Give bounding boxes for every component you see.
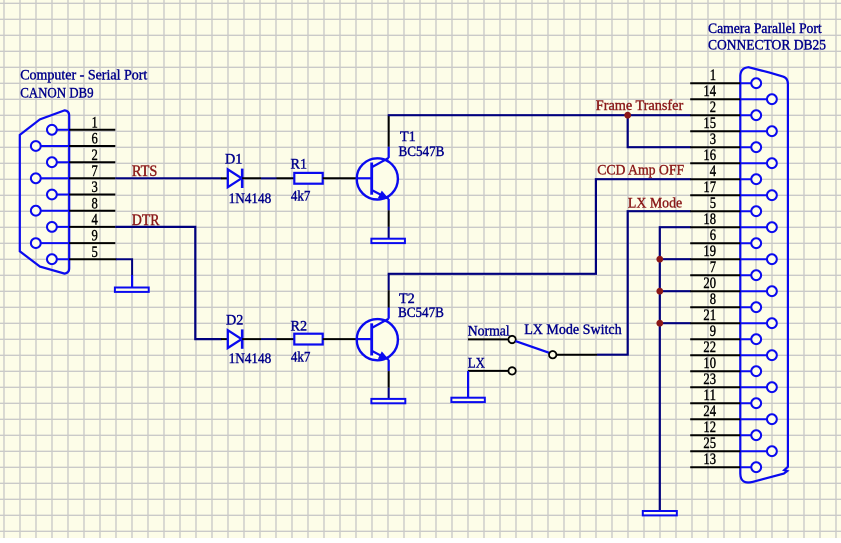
wire branch to DB25 pin 3 [628, 115, 691, 147]
transistor T1 [357, 115, 398, 227]
ground (T1 emitter) [371, 227, 405, 243]
ground (DB9 pin 5) [115, 259, 149, 292]
DB25 pin 13 [690, 451, 761, 472]
svg-text:25: 25 [703, 435, 716, 452]
resistor R2 [277, 334, 357, 345]
DB25 pin 4 [690, 163, 761, 184]
wire branch DB25 pin 20 [660, 290, 691, 292]
svg-text:17: 17 [703, 179, 716, 196]
svg-text:8: 8 [92, 195, 99, 212]
DB25 pin 15 [690, 115, 777, 136]
DB25 pin 20 [690, 275, 777, 296]
svg-text:22: 22 [703, 339, 716, 356]
svg-text:6: 6 [92, 131, 99, 148]
svg-text:DTR: DTR [132, 212, 160, 229]
svg-text:20: 20 [703, 275, 716, 292]
switch S1 "LX Mode Switch" [468, 336, 597, 375]
diode D2 [221, 329, 261, 348]
DB25 pin 16 [690, 147, 777, 168]
DB25 pin 6 [690, 227, 761, 248]
DB25 pin 5 [690, 195, 761, 216]
svg-text:Frame Transfer: Frame Transfer [596, 98, 684, 114]
wire D2 to R2 [261, 338, 277, 340]
wire LX Mode (DB25 pin 5 to switch pole) [597, 211, 691, 355]
transistor T2 [357, 274, 398, 388]
DB25 pin 19 [690, 243, 777, 264]
DB9 pin 1 [47, 114, 115, 134]
DB25 pin 10 [690, 355, 761, 376]
svg-text:1: 1 [92, 114, 98, 131]
svg-text:14: 14 [703, 83, 716, 100]
svg-text:D2: D2 [226, 312, 243, 328]
svg-text:3: 3 [710, 131, 717, 148]
svg-text:5: 5 [710, 195, 717, 212]
svg-text:11: 11 [703, 387, 716, 404]
DB9 pin 9 [31, 228, 115, 248]
svg-text:CONNECTOR DB25: CONNECTOR DB25 [708, 37, 826, 53]
svg-text:6: 6 [710, 227, 717, 244]
DB25 pin 21 [690, 307, 777, 328]
svg-text:4k7: 4k7 [291, 349, 310, 365]
DB9 connector shell [20, 110, 69, 273]
DB25 pin 11 [690, 387, 761, 408]
svg-text:D1: D1 [225, 151, 242, 167]
svg-text:LX Mode Switch: LX Mode Switch [524, 322, 622, 338]
svg-text:10: 10 [703, 355, 716, 372]
svg-text:3: 3 [92, 179, 99, 196]
DB25 pin 25 [690, 435, 777, 456]
wire Frame Transfer (T1 collector to DB25 pin 2) [388, 114, 691, 116]
junction dot (pin 19) [656, 256, 663, 263]
junction dot (Frame Transfer node) [624, 112, 631, 119]
wire CCD Amp OFF (T2 collector to DB25 pin 4) [388, 179, 691, 274]
svg-text:24: 24 [703, 403, 716, 420]
svg-text:LX Mode: LX Mode [628, 195, 682, 211]
wire RTS (DB9 pin7 to D1) [115, 177, 221, 179]
svg-text:1N4148: 1N4148 [229, 351, 272, 367]
svg-text:R2: R2 [291, 318, 308, 334]
svg-text:Camera Parallel Port: Camera Parallel Port [708, 21, 822, 37]
DB25 pin 7 [690, 259, 761, 280]
svg-text:CANON DB9: CANON DB9 [20, 86, 93, 102]
ground (LX contact) [451, 371, 484, 402]
svg-text:4: 4 [92, 212, 99, 229]
DB9 pin 6 [31, 131, 115, 151]
svg-text:19: 19 [703, 243, 716, 260]
wire DTR (DB9 pin4 down to D2) [115, 227, 221, 339]
DB9 pin 7 [31, 163, 115, 183]
svg-text:21: 21 [703, 307, 716, 324]
svg-text:T1: T1 [400, 129, 416, 145]
svg-text:7: 7 [92, 163, 99, 180]
svg-text:4k7: 4k7 [291, 188, 310, 204]
DB25 pin 14 [690, 83, 777, 104]
DB25 pin 24 [690, 403, 777, 424]
junction dot (pin 20) [656, 288, 663, 295]
svg-text:18: 18 [703, 211, 716, 228]
svg-text:R1: R1 [291, 157, 308, 173]
resistor R1 [277, 173, 357, 184]
svg-text:Normal: Normal [468, 324, 510, 340]
svg-text:9: 9 [710, 323, 717, 340]
svg-text:1: 1 [710, 67, 716, 84]
DB25 pin 9 [690, 323, 761, 344]
svg-text:23: 23 [703, 371, 716, 388]
svg-text:Computer - Serial Port: Computer - Serial Port [20, 67, 147, 83]
svg-text:7: 7 [710, 259, 717, 276]
DB25 connector shell [740, 67, 788, 482]
DB9 pin 3 [47, 179, 115, 199]
svg-text:1N4148: 1N4148 [229, 191, 272, 207]
svg-text:15: 15 [703, 115, 716, 132]
svg-text:8: 8 [710, 291, 717, 308]
svg-text:13: 13 [703, 451, 716, 468]
DB25 pin 3 [690, 131, 761, 152]
svg-text:2: 2 [710, 99, 716, 116]
DB25 pin 1 [690, 67, 761, 88]
svg-text:BC547B: BC547B [399, 144, 445, 160]
DB25 pin 8 [690, 291, 761, 312]
DB25 pin 22 [690, 339, 777, 360]
ground (DB25 bus) [643, 511, 677, 515]
DB9 pin 2 [47, 147, 115, 167]
svg-text:RTS: RTS [132, 163, 158, 180]
wire branch DB25 pin 19 [660, 258, 691, 260]
DB25 pin 2 [690, 99, 761, 120]
svg-text:9: 9 [92, 228, 99, 245]
DB9 pin 4 [47, 212, 115, 232]
DB25 pin 12 [690, 419, 761, 440]
svg-text:12: 12 [703, 419, 716, 436]
ground (T2 emitter) [371, 388, 405, 404]
svg-text:2: 2 [92, 147, 98, 164]
wire branch DB25 pin 21 [660, 322, 691, 324]
DB25 pin 23 [690, 371, 777, 392]
DB9 pin 5 [47, 244, 117, 264]
junction dot (pin 21) [656, 320, 663, 327]
svg-text:BC547B: BC547B [398, 305, 444, 321]
svg-text:LX: LX [468, 355, 485, 371]
DB9 pin 8 [31, 195, 115, 215]
svg-text:5: 5 [92, 244, 99, 261]
DB25 pin 17 [690, 179, 777, 200]
svg-text:16: 16 [703, 147, 716, 164]
DB25 pin 18 [690, 211, 777, 232]
wire D1 to R1 [261, 177, 277, 179]
svg-text:CCD Amp OFF: CCD Amp OFF [597, 163, 684, 179]
diode D1 [221, 169, 261, 188]
wire DB25 pin 18 to ground bus [660, 227, 691, 511]
svg-text:4: 4 [710, 163, 717, 180]
